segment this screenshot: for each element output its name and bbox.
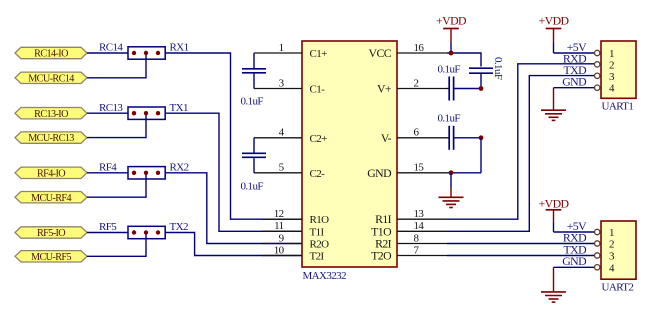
wire R1I pin13 to UART1 RXD (447, 64, 594, 219)
net label RX1 (170, 42, 189, 54)
value label C4 0.1uF (438, 64, 461, 76)
port MCU-RF5 (15, 251, 87, 263)
wire RC13-IO to header J2 (87, 112, 128, 114)
junction node VCC +VDD (449, 51, 454, 56)
wire +VDD to UART2 pin1 (554, 231, 595, 233)
svg-text:TX2: TX2 (170, 221, 188, 233)
wire MCU-RF5 to header J4 middle pin (87, 234, 146, 256)
svg-text:RC13-IO: RC13-IO (34, 109, 68, 120)
svg-text:8: 8 (414, 232, 420, 244)
U1 part label MAX3232 (303, 270, 347, 282)
U1 right pin stubs (397, 53, 447, 256)
value label C5 0.1uF (438, 113, 461, 125)
wire R2I pin8 to UART2 RXD (447, 243, 594, 245)
jumper header J2 (128, 107, 165, 119)
svg-text:MCU-RF4: MCU-RF4 (31, 193, 71, 204)
capacitor C5 0.1uF on V- pin6 (447, 126, 481, 150)
svg-text:MCU-RC13: MCU-RC13 (28, 133, 74, 144)
UART1 pin pads and stubs (595, 50, 602, 90)
wire net TX1 header to U1 (165, 113, 302, 231)
wire V- cap to GND rail (480, 138, 482, 173)
svg-text:RC14-IO: RC14-IO (34, 49, 68, 60)
connector label UART1 (602, 101, 634, 113)
wire +VDD to UART1 pin1 (554, 52, 595, 54)
svg-text:15: 15 (414, 162, 425, 174)
svg-text:1: 1 (279, 42, 284, 54)
wire UART1 pin4 GND (554, 88, 595, 110)
U1 left pin names (310, 48, 330, 263)
net label RF4 (99, 162, 117, 174)
power symbol +VDD main (450, 29, 452, 54)
svg-text:GND: GND (367, 166, 392, 180)
junction node V- cap (479, 135, 484, 140)
svg-text:11: 11 (274, 220, 283, 232)
capacitor C4 0.1uF on V+ pin2 (447, 77, 481, 101)
net label RX2 (170, 162, 189, 174)
ground symbol UART1 (541, 110, 566, 120)
net label +5V UART1 (567, 40, 587, 54)
wire MCU-RC14 to header J1 middle pin (87, 55, 146, 78)
svg-text:9: 9 (279, 232, 285, 244)
ground symbol U1 GND (439, 197, 464, 207)
wire GND pin15 rail (447, 172, 481, 174)
power symbol +VDD UART2 (553, 210, 555, 232)
svg-text:C1-: C1- (310, 84, 326, 96)
port MCU-RC13 (15, 132, 87, 144)
connector UART2 body (601, 221, 636, 279)
bar and text of +VDD main (436, 14, 467, 29)
capacitor C3 0.1uF vertical between VCC and V+ (469, 68, 493, 88)
wire RC14-IO to header J1 (87, 52, 128, 54)
wire net TX2 header to U1 (165, 233, 302, 256)
U1 right pin numbers 16 2 6 15 13 14 8 7 (414, 42, 425, 256)
wire T1O pin14 to UART1 TXD (447, 76, 594, 232)
svg-text:UART2: UART2 (602, 282, 634, 294)
net label GND UART2 (562, 254, 587, 268)
wire RF5-IO to header J4 (87, 232, 128, 234)
junction node V+ cap (479, 86, 484, 91)
value label C3 0.1uF vertical (492, 57, 504, 80)
svg-text:+VDD: +VDD (539, 196, 570, 210)
svg-text:RC14: RC14 (99, 42, 123, 54)
svg-text:0.1uF: 0.1uF (438, 113, 461, 125)
svg-text:6: 6 (414, 127, 420, 139)
svg-text:C2-: C2- (310, 168, 326, 180)
UART2 pin numbers 1-4 (609, 227, 615, 274)
value label C1 0.1uF (241, 96, 264, 108)
svg-text:1: 1 (609, 48, 614, 60)
svg-text:12: 12 (274, 208, 284, 220)
svg-text:GND: GND (562, 254, 587, 268)
svg-text:VCC: VCC (369, 46, 392, 60)
svg-text:3: 3 (279, 77, 285, 89)
UART1 pin numbers 1-4 (609, 48, 615, 95)
svg-text:0.1uF: 0.1uF (241, 181, 264, 193)
svg-text:16: 16 (414, 42, 425, 54)
svg-text:RF5-IO: RF5-IO (37, 228, 65, 239)
svg-text:1: 1 (609, 227, 614, 239)
capacitor C1 0.1uF between pin1 and pin3 (242, 53, 266, 89)
net label TX2 (170, 221, 188, 233)
svg-text:0.1uF: 0.1uF (492, 57, 504, 80)
svg-text:C1+: C1+ (310, 48, 328, 60)
svg-text:2: 2 (609, 59, 614, 71)
port MCU-RC14 (15, 72, 87, 84)
svg-text:V+: V+ (377, 82, 392, 96)
svg-text:+VDD: +VDD (436, 14, 467, 28)
net label +5V UART2 (567, 219, 587, 233)
wire net RX2 header to U1 (165, 173, 302, 244)
value label C2 0.1uF (241, 181, 264, 193)
wire GND junction down (450, 173, 452, 197)
UART2 pin pads and stubs (595, 229, 602, 270)
net label RXD UART2 (563, 231, 587, 245)
wire MCU-RF4 to header J3 middle pin (87, 175, 146, 198)
net label TXD UART1 (564, 63, 588, 77)
svg-text:RF4: RF4 (99, 162, 117, 174)
net label GND UART1 (562, 75, 587, 89)
wire net RX1 header to U1 (165, 53, 302, 219)
connector label UART2 (602, 282, 634, 294)
svg-text:14: 14 (414, 220, 425, 232)
svg-text:10: 10 (274, 244, 285, 256)
svg-text:RF5: RF5 (99, 221, 117, 233)
wire UART2 pin4 GND (554, 267, 595, 291)
svg-text:TX1: TX1 (170, 102, 188, 114)
wire RF4-IO to header J3 (87, 172, 128, 174)
svg-text:R1O: R1O (310, 214, 330, 226)
svg-text:RX2: RX2 (170, 162, 189, 174)
svg-text:T2I: T2I (310, 251, 325, 263)
svg-text:2: 2 (414, 77, 419, 89)
svg-text:0.1uF: 0.1uF (438, 64, 461, 76)
svg-text:RC13: RC13 (99, 102, 123, 114)
svg-text:T1I: T1I (310, 226, 325, 238)
capacitor C2 0.1uF between pin4 and pin5 (242, 138, 266, 173)
net label TXD UART2 (564, 242, 588, 256)
jumper header J3 (128, 167, 165, 179)
svg-text:13: 13 (414, 208, 425, 220)
wire T2O pin7 to UART2 TXD (447, 255, 594, 257)
bar and text of +VDD UART2 (539, 196, 570, 210)
svg-text:R2O: R2O (310, 239, 330, 251)
ground symbol UART2 (541, 292, 566, 302)
wire VCC pin16 to +VDD and bypass cap (447, 53, 481, 67)
U1 right pin names (367, 46, 392, 263)
svg-text:5: 5 (279, 162, 285, 174)
port RF5-IO (15, 227, 87, 239)
net label TX1 (170, 102, 188, 114)
net label RF5 (99, 221, 117, 233)
power symbol +VDD UART1 (553, 29, 555, 54)
connector UART1 body (601, 41, 636, 98)
svg-text:UART1: UART1 (602, 101, 634, 113)
svg-text:GND: GND (562, 75, 587, 89)
port RC14-IO (15, 47, 87, 59)
U1 left pin stubs (254, 53, 302, 256)
net label RC13 (99, 102, 123, 114)
jumper header J1 (128, 47, 165, 59)
svg-text:T2O: T2O (371, 249, 392, 263)
svg-text:RX1: RX1 (170, 42, 189, 54)
svg-text:MCU-RF5: MCU-RF5 (31, 252, 71, 263)
svg-text:4: 4 (279, 127, 285, 139)
svg-text:V-: V- (381, 131, 392, 145)
svg-text:MCU-RC14: MCU-RC14 (28, 73, 74, 84)
jumper header J4 (128, 226, 165, 238)
svg-text:C2+: C2+ (310, 133, 328, 145)
net label RXD UART1 (563, 51, 587, 65)
svg-text:7: 7 (414, 244, 420, 256)
wire MCU-RC13 to header J2 middle pin (87, 115, 146, 138)
IC U1 MAX3232 body (302, 41, 397, 267)
svg-text:2: 2 (609, 239, 614, 251)
port RC13-IO (15, 108, 87, 120)
svg-text:MAX3232: MAX3232 (303, 270, 347, 282)
port RF4-IO (15, 167, 87, 179)
junction node GND (449, 170, 454, 175)
net label RC14 (99, 42, 123, 54)
svg-text:+VDD: +VDD (539, 14, 570, 28)
svg-text:0.1uF: 0.1uF (241, 96, 264, 108)
port MCU-RF4 (15, 192, 87, 204)
U1 left pin numbers 1 3 4 5 12 11 9 10 (274, 42, 285, 256)
svg-text:RF4-IO: RF4-IO (37, 168, 65, 179)
bar and text of +VDD UART1 (539, 14, 570, 29)
